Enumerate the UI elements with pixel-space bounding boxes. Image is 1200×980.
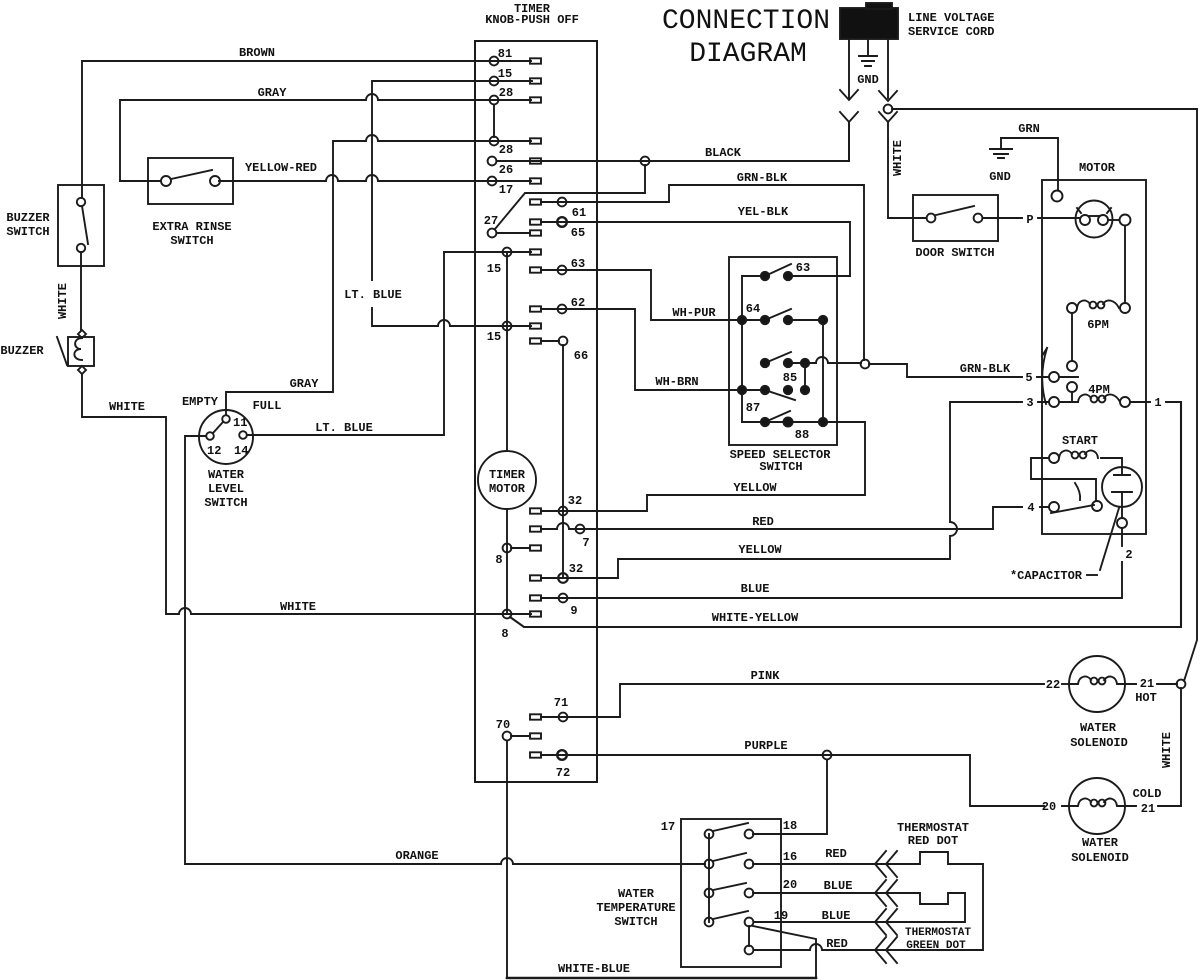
svg-text:65: 65 [571, 226, 585, 240]
wire ORANGE (water level 12 down to temp switch) [185, 436, 705, 864]
svg-text:17: 17 [661, 820, 675, 834]
svg-text:BROWN: BROWN [239, 46, 275, 60]
svg-text:THERMOSTAT: THERMOSTAT [897, 821, 969, 835]
svg-text:81: 81 [498, 47, 512, 61]
svg-text:RED: RED [752, 515, 774, 529]
svg-text:3: 3 [1026, 396, 1033, 410]
timer terminal 8b [503, 610, 512, 619]
svg-text:DOOR SWITCH: DOOR SWITCH [915, 246, 994, 260]
svg-text:1: 1 [1154, 396, 1161, 410]
inner left bus [742, 276, 765, 422]
svg-text:GRAY: GRAY [258, 86, 288, 100]
svg-text:27: 27 [484, 214, 498, 228]
wire BLACK (timer 26 to line) [497, 122, 849, 161]
motor main winding [1076, 201, 1113, 238]
svg-text:SOLENOID: SOLENOID [1071, 851, 1129, 865]
service cord ground [859, 39, 877, 66]
svg-text:WH-PUR: WH-PUR [672, 306, 716, 320]
water level switch [199, 410, 253, 464]
extra rinse switch [148, 158, 233, 204]
wire LT. BLUE (water level 14 riser to timer 15) [372, 81, 532, 280]
svg-text:KNOB-PUSH OFF: KNOB-PUSH OFF [485, 13, 579, 27]
motor terminal 5 [1049, 372, 1059, 382]
svg-text:62: 62 [571, 296, 585, 310]
svg-text:8: 8 [495, 553, 502, 567]
svg-text:P: P [1026, 213, 1033, 227]
svg-text:WATER: WATER [1080, 721, 1117, 735]
ground GRN [990, 138, 1012, 158]
motor main to terminal [1108, 219, 1119, 221]
water solenoid hot [1069, 656, 1125, 712]
timer contact stub 28 [530, 97, 541, 102]
svg-text:70: 70 [496, 718, 510, 732]
svg-text:SWITCH: SWITCH [6, 225, 49, 239]
svg-text:18: 18 [783, 819, 797, 833]
svg-text:WHITE: WHITE [56, 283, 70, 319]
link 66 to 32-32 [562, 345, 564, 578]
right border wire [1184, 110, 1197, 681]
svg-text:WHITE: WHITE [109, 400, 145, 414]
svg-text:BLUE: BLUE [824, 879, 853, 893]
timer terminal 70 [503, 732, 512, 741]
water temperature switch [681, 819, 781, 967]
timer terminal 27 [488, 229, 497, 238]
svg-text:START: START [1062, 434, 1098, 448]
wire to timer 27 [495, 165, 645, 229]
service cord [840, 8, 898, 39]
timer contact stub 81 [530, 58, 541, 63]
svg-text:20: 20 [1042, 800, 1056, 814]
speed selector switch [729, 257, 837, 445]
junction hot [1177, 680, 1186, 689]
svg-text:THERMOSTAT: THERMOSTAT [905, 927, 971, 939]
svg-text:GRN: GRN [1018, 122, 1040, 136]
svg-text:32: 32 [569, 562, 583, 576]
timer terminal 15b [503, 322, 512, 331]
connector chevron black lead [840, 112, 858, 122]
svg-text:4PM: 4PM [1088, 383, 1110, 397]
svg-text:PINK: PINK [751, 669, 781, 683]
svg-text:63: 63 [571, 257, 585, 271]
svg-text:2: 2 [1125, 548, 1132, 562]
wire GRN to motor [1001, 138, 1058, 190]
timer terminal 9 [530, 595, 541, 600]
svg-text:YELLOW: YELLOW [738, 543, 782, 557]
timer terminal 81 [490, 57, 499, 66]
svg-text:SWITCH: SWITCH [759, 460, 802, 474]
timer terminal 28 second [490, 137, 499, 146]
svg-text:LT. BLUE: LT. BLUE [315, 421, 373, 435]
wire white-blue riser and diagonal to 19 [753, 926, 816, 978]
wire GRAY (to timer 28) [120, 94, 531, 181]
svg-text:FULL: FULL [253, 399, 282, 413]
wire YELLOW (timer 32b to motor 3) [541, 402, 1049, 578]
svg-text:14: 14 [234, 444, 248, 458]
svg-text:TEMPERATURE: TEMPERATURE [596, 901, 675, 915]
svg-text:DIAGRAM: DIAGRAM [689, 39, 807, 70]
inner right bus [822, 320, 824, 422]
timer contact stub 15 [530, 78, 541, 83]
svg-text:66: 66 [574, 349, 588, 363]
svg-text:ORANGE: ORANGE [395, 849, 438, 863]
water solenoid cold [1069, 778, 1125, 834]
svg-text:RED: RED [826, 937, 848, 951]
timer terminal 62 [530, 306, 541, 311]
connector chevrons blue 20 row [875, 880, 897, 906]
svg-text:28: 28 [499, 143, 513, 157]
wire PURPLE (timer 72 to cold solenoid) [541, 755, 1044, 806]
svg-text:71: 71 [554, 696, 568, 710]
svg-text:26: 26 [499, 163, 513, 177]
svg-text:MOTOR: MOTOR [489, 482, 526, 496]
svg-text:9: 9 [570, 604, 577, 618]
timer terminal 65 [530, 219, 541, 224]
temp switch blades [713, 823, 748, 831]
row 85 upper [765, 352, 791, 363]
svg-text:8: 8 [501, 627, 508, 641]
svg-text:61: 61 [572, 206, 586, 220]
svg-text:LT. BLUE: LT. BLUE [344, 288, 402, 302]
junction on black wire [641, 157, 650, 166]
timer contact stub 28 second [530, 138, 541, 143]
wire white buzzer switch to buzzer [80, 252, 82, 330]
link 28 to 28 inside timer [493, 105, 495, 137]
wire GRN-BLK (timer 61 to motor 5) [541, 185, 864, 360]
wire BROWN (buzzer switch to timer 81) [82, 61, 531, 198]
svg-text:RED: RED [825, 847, 847, 861]
svg-text:WHITE-BLUE: WHITE-BLUE [558, 962, 630, 976]
wire WHITE-BLUE (timer 70 down) [506, 741, 508, 978]
motor 6PM winding [1067, 303, 1077, 313]
svg-text:GND: GND [857, 73, 879, 87]
wire WH-PUR (timer 63 to speed selector 64) [541, 270, 761, 320]
svg-text:CONNECTION: CONNECTION [662, 6, 830, 37]
row 64 [765, 309, 791, 320]
svg-text:WATER: WATER [208, 468, 245, 482]
title CONNECTION DIAGRAM [662, 6, 830, 70]
svg-text:RED DOT: RED DOT [908, 834, 958, 848]
svg-text:SOLENOID: SOLENOID [1070, 736, 1128, 750]
motor ground terminal [1052, 191, 1063, 202]
timer terminal 17 [488, 177, 497, 186]
link 15a-15b and to timer motor [506, 252, 508, 451]
capacitor label [1100, 508, 1119, 570]
svg-text:20: 20 [783, 878, 797, 892]
wire PINK (timer 71 to hot solenoid) [541, 684, 1044, 717]
wire P door switch to motor [983, 217, 1080, 219]
svg-text:BUZZER: BUZZER [0, 344, 44, 358]
svg-text:6PM: 6PM [1087, 318, 1109, 332]
row 85 lower / 87 [765, 390, 795, 400]
svg-text:WHITE: WHITE [1160, 732, 1174, 768]
junction circle [861, 360, 870, 369]
svg-text:15: 15 [487, 330, 501, 344]
junction on purple wire [823, 751, 832, 760]
svg-text:GRN-BLK: GRN-BLK [960, 362, 1011, 376]
wire WH-BRN (timer 62 to speed selector 87) [541, 309, 761, 390]
svg-text:11: 11 [233, 416, 247, 430]
svg-text:87: 87 [746, 401, 760, 415]
timer terminal 15 (row 2) [490, 77, 499, 86]
timer contact stub 26 [530, 158, 541, 163]
svg-text:EXTRA RINSE: EXTRA RINSE [152, 220, 231, 234]
svg-text:12: 12 [207, 444, 221, 458]
svg-text:19: 19 [774, 909, 788, 923]
svg-text:BLUE: BLUE [822, 909, 851, 923]
svg-text:BLACK: BLACK [705, 146, 742, 160]
wire WHITE top (to right border) [892, 108, 1197, 110]
svg-text:WATER: WATER [1082, 836, 1119, 850]
wire purple branch to temp switch 18 [753, 760, 827, 834]
svg-text:SERVICE CORD: SERVICE CORD [908, 25, 994, 39]
svg-text:22: 22 [1046, 678, 1060, 692]
wire RED (timer 7 to motor 4) [541, 507, 1049, 529]
connector chevrons red dot row [875, 851, 897, 877]
svg-text:HOT: HOT [1135, 691, 1157, 705]
svg-text:4: 4 [1027, 501, 1034, 515]
timer terminal 66 [530, 338, 541, 343]
row 63 [765, 264, 791, 276]
svg-text:15: 15 [498, 67, 512, 81]
temp switch right contacts [745, 830, 754, 839]
wire WHITE-YELLOW (timer 8 to motor 1) [510, 402, 1181, 627]
timer terminal 7 [530, 526, 541, 531]
svg-text:16: 16 [783, 850, 797, 864]
motor terminal 3 and 4PM winding [1049, 397, 1059, 407]
svg-text:MOTOR: MOTOR [1079, 161, 1116, 175]
connector chevrons blue 19 row [875, 909, 897, 935]
svg-text:28: 28 [499, 86, 513, 100]
svg-text:YELLOW-RED: YELLOW-RED [245, 161, 317, 175]
wire YEL-BLK (timer 65 to speed selector 63) [541, 222, 850, 276]
wire YELLOW (timer 32 to speed selector 88) [541, 422, 865, 511]
svg-text:YEL-BLK: YEL-BLK [738, 205, 789, 219]
door switch [913, 195, 998, 241]
svg-text:COLD: COLD [1133, 787, 1162, 801]
wire RED thermostat red dot loop [753, 852, 983, 950]
svg-text:WHITE: WHITE [891, 140, 905, 176]
buzzer [68, 337, 94, 366]
motor start switch [1049, 502, 1059, 512]
svg-text:WH-BRN: WH-BRN [655, 375, 698, 389]
motor box [1042, 180, 1146, 534]
wire WHITE (buzzer to timer 8) [82, 374, 531, 614]
svg-text:LINE VOLTAGE: LINE VOLTAGE [908, 11, 994, 25]
motor speed contacts [1067, 361, 1077, 371]
connector chevrons red bottom row [875, 937, 897, 963]
buzzer switch [58, 185, 104, 266]
svg-text:63: 63 [796, 261, 810, 275]
svg-text:SWITCH: SWITCH [170, 234, 213, 248]
motor capacitor [1102, 467, 1142, 507]
svg-text:YELLOW: YELLOW [733, 481, 777, 495]
row 88 [742, 421, 823, 423]
timer terminal 15a [503, 248, 512, 257]
timer terminal 8a [503, 544, 512, 553]
timer contact stub 17 [530, 178, 541, 183]
timer terminal 61 [530, 199, 541, 204]
svg-text:21: 21 [1141, 802, 1155, 816]
svg-text:15: 15 [487, 262, 501, 276]
timer terminal 71 [530, 714, 541, 719]
motor start winding [1062, 434, 1098, 448]
svg-text:SWITCH: SWITCH [204, 496, 247, 510]
timer motor [478, 451, 536, 509]
svg-text:21: 21 [1140, 677, 1154, 691]
svg-text:85: 85 [783, 371, 797, 385]
svg-text:LEVEL: LEVEL [208, 482, 244, 496]
svg-text:WHITE-YELLOW: WHITE-YELLOW [712, 611, 799, 625]
timer terminal 32b [530, 575, 541, 580]
svg-text:5: 5 [1025, 371, 1032, 385]
wire WHITE down to door switch [888, 122, 926, 218]
wire white right side down to cold [1180, 688, 1182, 806]
svg-text:WATER: WATER [618, 887, 655, 901]
wire 1 (motor to white-yellow) [1130, 401, 1181, 403]
timer terminal 72 [530, 752, 541, 757]
svg-text:TIMER: TIMER [489, 468, 526, 482]
timer terminal 28 [490, 96, 499, 105]
wire YELLOW-RED (extra rinse to timer 17) [219, 175, 531, 181]
svg-text:64: 64 [746, 302, 760, 316]
svg-text:BUZZER: BUZZER [6, 211, 50, 225]
svg-text:*CAPACITOR: *CAPACITOR [1010, 569, 1083, 583]
svg-text:GND: GND [989, 170, 1011, 184]
svg-text:BLUE: BLUE [741, 582, 770, 596]
svg-text:EMPTY: EMPTY [182, 395, 219, 409]
temp switch left bus [708, 834, 710, 922]
service cord right lead [887, 39, 889, 98]
svg-text:GREEN DOT: GREEN DOT [906, 940, 966, 952]
svg-text:72: 72 [556, 766, 570, 780]
svg-text:88: 88 [795, 428, 809, 442]
svg-text:7: 7 [582, 536, 589, 550]
timer label [485, 2, 579, 27]
wire BLUE (timer 9 to motor 2) [541, 562, 1122, 598]
timer box [475, 41, 597, 782]
timer terminal 63 [530, 267, 541, 272]
junction white lead [884, 105, 893, 114]
wire BLUE thermostat green dot loop [753, 893, 965, 922]
wire LT. BLUE (water level 14 to timer 15a) [247, 252, 531, 435]
svg-text:SWITCH: SWITCH [614, 915, 657, 929]
timer terminal 32a [530, 508, 541, 513]
timer terminal 26 [488, 157, 497, 166]
svg-text:GRAY: GRAY [290, 377, 320, 391]
svg-text:WHITE: WHITE [280, 600, 316, 614]
svg-text:GRN-BLK: GRN-BLK [737, 171, 788, 185]
service cord left lead [848, 39, 850, 98]
wire GRAY (water level 11 to timer 28) [226, 135, 531, 415]
svg-text:32: 32 [568, 494, 582, 508]
svg-text:17: 17 [499, 183, 513, 197]
svg-text:PURPLE: PURPLE [744, 739, 787, 753]
